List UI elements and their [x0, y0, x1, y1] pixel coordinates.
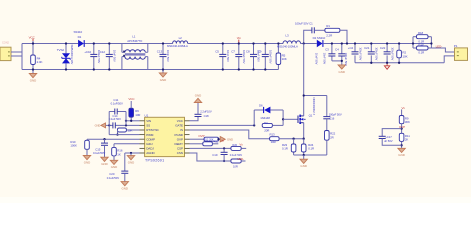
svg-text:GND: GND: [300, 164, 307, 168]
svg-text:100uF 50V: 100uF 50V: [391, 47, 395, 60]
svg-text:RT/SYNC: RT/SYNC: [146, 128, 159, 132]
svg-text:GND: GND: [111, 165, 118, 169]
svg-text:C8: C8: [246, 50, 250, 54]
svg-text:L2: L2: [179, 36, 183, 40]
svg-text:OVP: OVP: [177, 137, 183, 141]
svg-text:D1: D1: [78, 35, 82, 39]
svg-text:GND: GND: [195, 94, 202, 98]
svg-text:C5: C5: [215, 50, 219, 54]
svg-text:100K: 100K: [70, 144, 77, 148]
svg-text:100uF 50V: 100uF 50V: [344, 53, 348, 66]
svg-text:MS1040-100MLA: MS1040-100MLA: [167, 44, 188, 48]
svg-text:SS: SS: [146, 124, 150, 128]
svg-text:C9: C9: [258, 50, 262, 54]
svg-text:LED-: LED-: [237, 157, 244, 161]
svg-text:GND: GND: [128, 161, 135, 165]
svg-text:10R: 10R: [135, 113, 140, 117]
svg-text:100uF 50V: 100uF 50V: [358, 47, 362, 60]
svg-text:L3: L3: [285, 33, 289, 37]
svg-text:PWM: PWM: [146, 133, 154, 137]
svg-text:R1: R1: [326, 24, 330, 28]
svg-text:C13: C13: [157, 49, 163, 53]
svg-text:R3: R3: [264, 121, 268, 125]
svg-text:0.1uF/50V: 0.1uF/50V: [111, 102, 123, 106]
svg-text:VCC: VCC: [128, 97, 135, 101]
svg-text:R20: R20: [232, 143, 237, 147]
svg-text:2K: 2K: [405, 138, 409, 142]
svg-text:GND: GND: [339, 70, 346, 74]
svg-text:10K: 10K: [282, 57, 287, 61]
svg-text:10K: 10K: [402, 55, 407, 59]
svg-text:GND: GND: [160, 78, 167, 82]
svg-text:P1: P1: [454, 44, 458, 48]
svg-text:DEMY: DEMY: [175, 142, 183, 146]
svg-text:GND: GND: [398, 153, 405, 157]
svg-text:SS310: SS310: [74, 30, 83, 34]
svg-text:CSN: CSN: [177, 151, 183, 155]
svg-text:Vx: Vx: [239, 142, 243, 146]
svg-text:VCC: VCC: [177, 119, 184, 123]
svg-text:C12: C12: [100, 50, 106, 54]
svg-text:CON2: CON2: [2, 40, 10, 44]
svg-text:GND: GND: [101, 162, 108, 166]
svg-text:C18: C18: [204, 114, 209, 118]
svg-text:uF 50V: uF 50V: [384, 139, 393, 143]
svg-text:R18: R18: [418, 31, 424, 35]
svg-text:10nF 50V: 10nF 50V: [166, 50, 170, 62]
svg-text:1N4148: 1N4148: [260, 116, 270, 120]
svg-text:R12 20K: R12 20K: [204, 137, 214, 141]
svg-text:IS: IS: [180, 128, 183, 132]
svg-text:C7: C7: [231, 50, 235, 54]
svg-text:AGND: AGND: [146, 151, 155, 155]
svg-text:PGND: PGND: [175, 133, 184, 137]
svg-text:0.1uF/50V: 0.1uF/50V: [93, 151, 105, 155]
svg-text:10nF 50V: 10nF 50V: [315, 53, 319, 65]
svg-text:GATE: GATE: [175, 124, 183, 128]
svg-text:Vin: Vin: [237, 36, 241, 40]
svg-text:0.1R: 0.1R: [308, 147, 314, 151]
svg-text:0.1R: 0.1R: [418, 50, 424, 54]
svg-text:C4: C4: [335, 48, 339, 52]
svg-text:100nF 50V: 100nF 50V: [268, 50, 272, 64]
svg-text:1K: 1K: [117, 153, 121, 157]
svg-text:APC5467TO: APC5467TO: [127, 39, 143, 43]
svg-text:VCC: VCC: [29, 35, 36, 39]
svg-text:R15: R15: [214, 139, 219, 143]
svg-text:30K: 30K: [405, 120, 410, 124]
svg-text:C16: C16: [329, 117, 334, 121]
svg-text:10K: 10K: [127, 128, 132, 132]
svg-text:+C10: +C10: [84, 50, 91, 54]
svg-text:SMBJ30CA 30V: SMBJ30CA 30V: [70, 45, 74, 65]
svg-text:GND: GND: [122, 187, 129, 191]
svg-text:2.2uF10V: 2.2uF10V: [200, 109, 212, 113]
svg-text:MS1040-100MLA: MS1040-100MLA: [277, 44, 298, 48]
svg-text:IADJ: IADJ: [146, 142, 153, 146]
svg-text:0.1R: 0.1R: [282, 147, 288, 151]
svg-text:2R: 2R: [330, 136, 334, 140]
svg-text:0.1uF/50V: 0.1uF/50V: [107, 176, 119, 180]
svg-text:VIN: VIN: [146, 119, 151, 123]
svg-text:NDD04N80Z-7: NDD04N80Z-7: [312, 98, 316, 116]
svg-text:2.4K: 2.4K: [37, 60, 43, 64]
svg-text:0.1uF 50V: 0.1uF 50V: [109, 117, 121, 121]
svg-text:C3: C3: [325, 48, 329, 52]
svg-text:GND: GND: [227, 137, 233, 141]
svg-text:10nF 50V: 10nF 50V: [226, 50, 230, 62]
svg-text:D2 SS310: D2 SS310: [313, 36, 326, 40]
svg-text:R19: R19: [418, 43, 424, 47]
svg-text:R13: R13: [270, 133, 276, 137]
svg-text:CSP: CSP: [177, 147, 183, 151]
svg-text:GND: GND: [95, 124, 101, 128]
svg-text:Vx: Vx: [402, 106, 406, 110]
svg-text:LED-: LED-: [436, 44, 443, 48]
svg-text:TPS92691: TPS92691: [145, 159, 164, 163]
svg-text:U1: U1: [145, 114, 149, 118]
svg-text:TVS2: TVS2: [57, 48, 65, 52]
svg-text:COMP: COMP: [146, 137, 155, 141]
svg-text:C22: C22: [380, 46, 386, 50]
svg-text:10nF 50V: 10nF 50V: [323, 53, 327, 65]
svg-text:GND: GND: [84, 160, 91, 164]
svg-text:C19: C19: [212, 153, 218, 157]
svg-text:100uF 50V: 100uF 50V: [375, 47, 379, 60]
svg-text:DADJ: DADJ: [146, 147, 154, 151]
svg-text:C21: C21: [364, 46, 370, 50]
svg-text:10R: 10R: [233, 164, 238, 168]
svg-text:10R: 10R: [271, 140, 276, 144]
svg-text:100uF 50V C1: 100uF 50V C1: [295, 22, 313, 26]
svg-text:10nF 50V: 10nF 50V: [113, 50, 117, 62]
svg-text:D6: D6: [259, 103, 263, 107]
svg-text:2.2R: 2.2R: [326, 34, 333, 38]
svg-text:GND: GND: [30, 78, 37, 82]
svg-text:Q1: Q1: [309, 114, 313, 118]
svg-text:+C2: +C2: [348, 46, 354, 50]
